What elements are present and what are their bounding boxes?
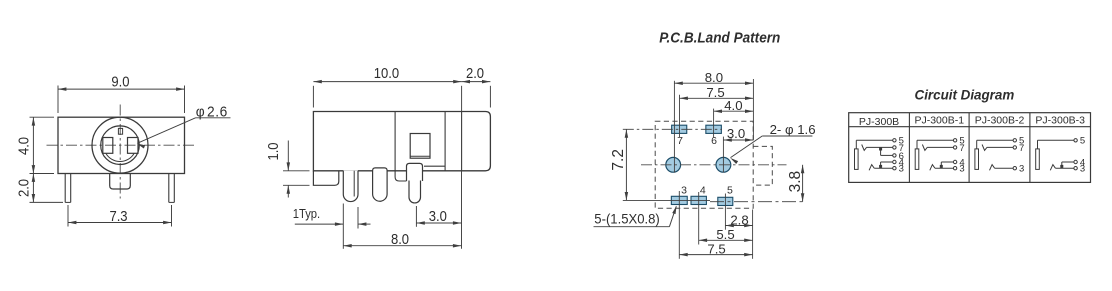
svg-text:7.5: 7.5 <box>707 241 725 256</box>
svg-text:3: 3 <box>899 164 904 175</box>
svg-text:8.0: 8.0 <box>705 70 723 85</box>
svg-text:7: 7 <box>677 135 683 147</box>
svg-text:PJ-300B-3: PJ-300B-3 <box>1035 115 1085 127</box>
svg-text:7.2: 7.2 <box>610 149 627 171</box>
svg-text:5: 5 <box>1080 136 1085 147</box>
svg-text:3.0: 3.0 <box>727 126 745 141</box>
svg-text:9.0: 9.0 <box>111 74 129 90</box>
svg-text:3: 3 <box>1019 164 1024 175</box>
svg-text:3: 3 <box>959 164 964 175</box>
svg-text:2.0: 2.0 <box>16 179 32 197</box>
svg-text:7.5: 7.5 <box>706 85 724 100</box>
svg-text:PJ-300B-1: PJ-300B-1 <box>914 115 964 127</box>
svg-text:2.0: 2.0 <box>466 65 484 81</box>
svg-text:10.0: 10.0 <box>374 65 400 81</box>
svg-text:3: 3 <box>681 185 687 197</box>
svg-text:2- φ 1.6: 2- φ 1.6 <box>770 122 816 137</box>
svg-text:5.5: 5.5 <box>716 227 734 242</box>
svg-text:5-(1.5X0.8): 5-(1.5X0.8) <box>594 211 659 226</box>
svg-text:φ 2.6: φ 2.6 <box>196 103 228 119</box>
svg-text:P.C.B.Land Pattern: P.C.B.Land Pattern <box>659 30 780 47</box>
svg-text:4.0: 4.0 <box>16 137 32 155</box>
svg-text:Circuit Diagram: Circuit Diagram <box>915 87 1015 102</box>
svg-text:3.8: 3.8 <box>787 171 804 193</box>
svg-text:5: 5 <box>727 185 733 197</box>
svg-text:PJ-300B: PJ-300B <box>859 116 899 128</box>
svg-text:7: 7 <box>959 143 964 154</box>
svg-text:3.0: 3.0 <box>429 208 447 224</box>
svg-text:7.3: 7.3 <box>109 208 127 224</box>
svg-text:1.0: 1.0 <box>265 142 281 160</box>
svg-text:4: 4 <box>700 185 706 197</box>
svg-text:PJ-300B-2: PJ-300B-2 <box>975 115 1025 127</box>
svg-text:8.0: 8.0 <box>391 231 409 247</box>
svg-text:3: 3 <box>1080 164 1085 175</box>
svg-text:7: 7 <box>1019 143 1024 154</box>
svg-text:2.8: 2.8 <box>730 212 748 227</box>
svg-text:4.0: 4.0 <box>724 98 742 113</box>
svg-text:6: 6 <box>711 135 717 147</box>
svg-text:1Typ.: 1Typ. <box>293 206 320 221</box>
